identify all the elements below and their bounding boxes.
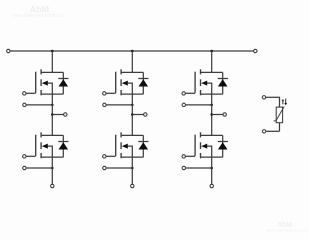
- terminal: gate G6: [182, 155, 185, 158]
- terminal: DC- N2: [131, 184, 134, 187]
- wire: leg 3 midpoint vertical: [211, 94, 213, 135]
- diode D3 (anti-parallel body diode): [138, 72, 148, 94]
- watermark top-left: [12, 5, 64, 20]
- wire: kelvin source S1 lead: [26, 104, 52, 106]
- terminal: thermistor bottom: [262, 130, 265, 133]
- terminal: gate G4: [103, 155, 106, 158]
- node: leg 2 DC+ junction: [131, 50, 134, 53]
- wire: phase output AC2 lead: [132, 114, 143, 116]
- wire: leg 1 drain drop: [51, 51, 53, 72]
- terminal: gate G1: [23, 92, 26, 95]
- node: leg 3 phase junction: [210, 113, 213, 116]
- terminal: thermistor top: [262, 96, 265, 99]
- diode D6 (anti-parallel body diode): [218, 135, 228, 157]
- terminal: phase output AC1: [64, 113, 67, 116]
- wire: leg 1 source drop: [51, 157, 53, 184]
- terminal: gate G3: [103, 92, 106, 95]
- terminal: phase output AC2: [144, 113, 147, 116]
- wire: leg 1 midpoint vertical: [51, 94, 53, 135]
- terminal: kelvin source S2: [23, 166, 26, 169]
- wire: leg 2 source drop: [131, 157, 133, 184]
- wire: top DC+ rail: [10, 50, 253, 52]
- wire: leg 2 drain drop: [131, 51, 133, 72]
- wire: kelvin source S5 lead: [186, 104, 212, 106]
- wire: leg 2 midpoint vertical: [131, 94, 133, 135]
- wire: kelvin source S3 lead: [106, 104, 132, 106]
- transistor Q2 (N-channel MOSFET): [26, 132, 63, 158]
- terminal: phase output AC3: [223, 113, 226, 116]
- wire: thermistor bottom lead: [266, 123, 280, 132]
- terminal: DC+ right: [254, 49, 257, 52]
- svg-text:www.abm-semi.com.cn: www.abm-semi.com.cn: [266, 228, 307, 233]
- transistor Q3 (N-channel MOSFET): [106, 69, 143, 95]
- node: leg 3 high-side kelvin junction: [210, 104, 213, 107]
- wire: phase output AC3 lead: [212, 114, 223, 116]
- terminal: gate G5: [182, 92, 185, 95]
- wire: thermistor top lead: [266, 97, 280, 107]
- node: leg 3 low-side kelvin junction: [210, 167, 213, 170]
- diode D2 (anti-parallel body diode): [58, 135, 68, 157]
- thermistor RT (NTC): [274, 107, 285, 123]
- watermark bottom-right: [266, 222, 307, 233]
- wire: leg 3 drain drop: [211, 51, 213, 72]
- wire: kelvin source S2 lead: [26, 167, 52, 169]
- node: leg 2 low-side kelvin junction: [131, 167, 134, 170]
- node: leg 2 phase junction: [131, 113, 134, 116]
- transistor Q5 (N-channel MOSFET): [185, 69, 222, 95]
- terminal: kelvin source S1: [23, 103, 26, 106]
- wire: phase output AC1 lead: [52, 114, 63, 116]
- terminal: gate G2: [23, 155, 26, 158]
- terminal: kelvin source S4: [103, 166, 106, 169]
- wire: leg 3 source drop: [211, 157, 213, 184]
- node: leg 1 DC+ junction: [51, 50, 54, 53]
- node: leg 1 phase junction: [51, 113, 54, 116]
- node: leg 1 high-side kelvin junction: [51, 104, 54, 107]
- terminal: kelvin source S3: [103, 103, 106, 106]
- wire: kelvin source S6 lead: [186, 167, 212, 169]
- terminal: kelvin source S5: [182, 103, 185, 106]
- node: leg 1 low-side kelvin junction: [51, 167, 54, 170]
- terminal: DC- N1: [51, 184, 54, 187]
- node: leg 3 DC+ junction: [210, 50, 213, 53]
- terminal: DC+ left: [7, 49, 10, 52]
- node: leg 2 high-side kelvin junction: [131, 104, 134, 107]
- transistor Q4 (N-channel MOSFET): [106, 132, 143, 158]
- transistor Q1 (N-channel MOSFET): [26, 69, 63, 95]
- terminal: kelvin source S6: [182, 166, 185, 169]
- wire: kelvin source S4 lead: [106, 167, 132, 169]
- terminal: DC- N3: [210, 184, 213, 187]
- svg-text:www.abm-semi.com.cn: www.abm-semi.com.cn: [12, 13, 64, 19]
- label: t with down-arrow (NTC mark): [282, 99, 287, 106]
- transistor Q6 (N-channel MOSFET): [185, 132, 222, 158]
- diode D4 (anti-parallel body diode): [138, 135, 148, 157]
- diode D5 (anti-parallel body diode): [218, 72, 228, 94]
- diode D1 (anti-parallel body diode): [58, 72, 68, 94]
